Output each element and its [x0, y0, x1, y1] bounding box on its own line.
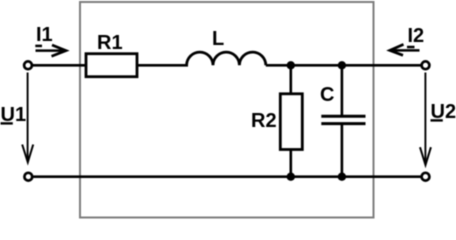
resistor R1 (body) — [86, 54, 137, 77]
svg-text:R1: R1 — [97, 32, 123, 54]
wire node B to C top plate — [341, 65, 344, 116]
wire T1 to R1 — [33, 64, 86, 67]
resistor R2 (body) — [280, 94, 302, 150]
node A (junction dot, top of R2) — [287, 61, 295, 69]
underline of I1 — [35, 45, 42, 48]
wire R1 to L — [137, 64, 188, 67]
wire L to node A — [266, 64, 291, 67]
capacitor C top plate — [321, 115, 365, 118]
wire C bottom plate to node D — [341, 124, 344, 177]
terminal T3 (top-right, open circle) — [422, 61, 430, 69]
voltage arrow U1 (pointing down) — [22, 73, 33, 163]
svg-text:I2: I2 — [408, 25, 425, 47]
terminal T1 (top-left, open circle) — [24, 61, 32, 69]
svg-text:I1: I1 — [36, 24, 53, 46]
inductor L (3 arcs) — [187, 52, 266, 65]
svg-text:L: L — [212, 28, 224, 50]
terminal T2 (bottom-left, open circle) — [24, 173, 32, 181]
underline of U1 — [1, 122, 13, 124]
capacitor C bottom plate — [321, 122, 365, 125]
svg-text:R2: R2 — [251, 110, 277, 132]
two-port network boundary box — [80, 2, 374, 218]
underline of U2 — [431, 119, 443, 121]
node C (junction dot, bottom of R2) — [287, 173, 295, 181]
wire node A to node B — [291, 64, 342, 67]
wire node A to R2 top — [289, 65, 292, 94]
current arrow I2 (pointing left) — [390, 44, 420, 55]
current arrow I1 (pointing right) — [36, 45, 67, 56]
node D (junction dot, bottom of C) — [338, 173, 346, 181]
wire R2 bottom to node C — [289, 150, 292, 177]
wire node B to T3 — [342, 64, 421, 67]
bottom wire T2 to T4 — [33, 175, 421, 178]
terminal T4 (bottom-right, open circle) — [422, 173, 430, 181]
svg-text:C: C — [320, 84, 334, 106]
underline of I2 — [407, 46, 415, 49]
node B (junction dot, top of C) — [338, 61, 346, 69]
voltage arrow U2 (pointing down) — [420, 73, 431, 166]
